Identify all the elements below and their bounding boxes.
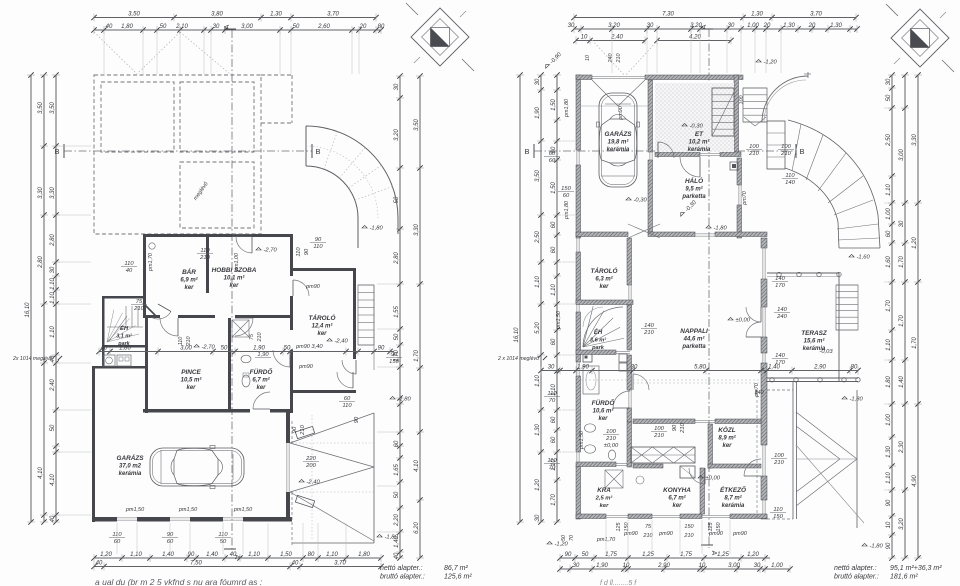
door HÁLÓ xyxy=(695,233,715,235)
PINCE|FÜRDŐ divider xyxy=(228,318,231,409)
section line A-A plan1 xyxy=(231,30,233,552)
svg-text:-1,80: -1,80 xyxy=(850,397,864,403)
garage right wall upper seg xyxy=(286,409,290,443)
door FÜRDŐ xyxy=(628,390,630,408)
french door leaf A xyxy=(746,307,761,322)
canopy arc over entry xyxy=(762,76,808,122)
svg-text:1,25: 1,25 xyxy=(717,552,729,558)
construction extension lines left plan2 xyxy=(562,140,575,142)
svg-text:1,10: 1,10 xyxy=(326,552,338,558)
svg-text:240: 240 xyxy=(776,314,787,320)
svg-text:50: 50 xyxy=(221,346,228,352)
dimension chain plan1 top overall xyxy=(91,12,378,22)
svg-text:-1,80: -1,80 xyxy=(398,397,412,403)
north compass symbol xyxy=(886,4,954,72)
wardrobe HÁLÓ xyxy=(730,162,738,170)
svg-text:1,10: 1,10 xyxy=(50,278,56,290)
svg-text:50: 50 xyxy=(582,552,589,558)
garage bottom wall seg3 xyxy=(190,517,223,522)
dimension chain plan2 bottom overall xyxy=(557,563,792,573)
right wall seg2 xyxy=(290,296,293,330)
svg-text:pm90: pm90 xyxy=(305,284,321,290)
svg-text:B: B xyxy=(524,147,529,156)
svg-text:10: 10 xyxy=(623,563,630,569)
svg-text:ker: ker xyxy=(186,385,196,391)
exterior stair right of TÁROLÓ xyxy=(358,285,374,345)
entry bottom wall xyxy=(94,366,145,369)
svg-text:60: 60 xyxy=(551,246,557,253)
svg-text:ker: ker xyxy=(317,331,327,337)
ramp bar 2 xyxy=(295,495,314,507)
svg-text:3,70: 3,70 xyxy=(327,12,339,18)
svg-text:ÉH: ÉH xyxy=(594,328,603,336)
svg-text:100: 100 xyxy=(749,144,759,150)
svg-text:pm90: pm90 xyxy=(732,531,748,537)
garage|ET divider xyxy=(648,80,653,152)
svg-text:15,6 m²: 15,6 m² xyxy=(804,338,826,345)
svg-text:parketta: parketta xyxy=(681,344,706,350)
svg-text:40: 40 xyxy=(230,552,237,558)
svg-text:125: 125 xyxy=(708,522,714,532)
svg-text:10,2 m²: 10,2 m² xyxy=(689,139,711,146)
svg-text:2,80: 2,80 xyxy=(38,256,44,269)
dimension chain plan2 left overall xyxy=(514,72,524,524)
FÜRDŐ right wall seg2 xyxy=(627,408,632,422)
svg-text:30: 30 xyxy=(899,220,905,227)
svg-text:12,4 m²: 12,4 m² xyxy=(312,323,334,330)
svg-text:pm1,00: pm1,00 xyxy=(234,253,240,272)
TÁROLÓ top wall xyxy=(576,232,628,237)
door arc corridor xyxy=(633,374,649,390)
svg-text:-0,03: -0,03 xyxy=(819,349,833,355)
top wall xyxy=(143,234,292,237)
svg-text:f d ll........5 f: f d ll........5 f xyxy=(600,580,637,586)
kitchen counter with X cells xyxy=(631,447,695,463)
ramp dashed connection xyxy=(767,389,793,391)
svg-text:3,20: 3,20 xyxy=(394,129,400,141)
svg-text:TERASZ: TERASZ xyxy=(801,330,828,337)
svg-text:NAPPALI: NAPPALI xyxy=(680,328,708,335)
ET stipple floor xyxy=(655,83,734,152)
svg-text:110: 110 xyxy=(218,532,228,538)
ET stair diagonal xyxy=(712,92,734,136)
svg-text:-2,40: -2,40 xyxy=(307,480,321,486)
svg-text:pm1,50: pm1,50 xyxy=(178,507,198,513)
svg-text:8,7 m²: 8,7 m² xyxy=(724,495,742,502)
svg-text:2x 1014 meglévő: 2x 1014 meglévő xyxy=(12,356,53,362)
dimension chain plan2 interior horizontal xyxy=(538,365,860,375)
svg-text:30: 30 xyxy=(535,78,541,85)
roof valley dotted lines xyxy=(94,32,137,74)
curved stair treads xyxy=(792,124,801,171)
svg-text:1,10: 1,10 xyxy=(535,276,541,288)
svg-text:1,50: 1,50 xyxy=(551,182,557,194)
svg-text:1,70: 1,70 xyxy=(899,315,905,327)
dimension chain plan1 bottom overall xyxy=(91,561,383,571)
dimension chain plan2 top detail xyxy=(568,23,860,33)
ÉH|NAPPALI divider xyxy=(627,305,632,350)
car (top view) xyxy=(597,93,640,187)
dimension chain plan2 right mid xyxy=(899,72,909,560)
svg-text:90: 90 xyxy=(565,552,572,558)
terrace top railing xyxy=(767,272,839,274)
svg-text:3,50: 3,50 xyxy=(414,119,420,131)
svg-text:5,80: 5,80 xyxy=(694,365,706,371)
garage door opening xyxy=(286,443,288,492)
svg-text:210: 210 xyxy=(748,151,759,157)
car (top view) xyxy=(150,446,244,489)
left wall seg2 xyxy=(576,165,581,238)
svg-text:-1,80: -1,80 xyxy=(385,535,399,541)
door HOBBI top xyxy=(236,237,252,253)
svg-text:3,00: 3,00 xyxy=(728,563,740,569)
svg-text:2,40: 2,40 xyxy=(50,379,56,392)
window bottom a xyxy=(606,514,628,516)
svg-text:200: 200 xyxy=(305,463,316,469)
svg-text:90: 90 xyxy=(354,416,360,423)
svg-text:nettó alapter.:: nettó alapter.: xyxy=(380,565,423,572)
ÉH top wall xyxy=(102,296,146,299)
svg-text:2,20: 2,20 xyxy=(394,514,400,527)
right wall seg1 xyxy=(290,234,293,276)
svg-text:pm1,70: pm1,70 xyxy=(148,253,154,272)
dimension chain plan2 bottom detail xyxy=(557,552,770,562)
window 110/150 xyxy=(762,500,764,515)
section marker B right plan1 xyxy=(311,144,313,158)
svg-text:-1,80: -1,80 xyxy=(370,226,384,232)
svg-text:10: 10 xyxy=(699,563,706,569)
window KÖZL xyxy=(762,445,764,476)
svg-text:10,5 m²: 10,5 m² xyxy=(181,377,203,384)
window HÁLÓ xyxy=(738,185,740,205)
svg-text:B: B xyxy=(315,147,320,156)
svg-text:pm1,50: pm1,50 xyxy=(125,507,145,513)
svg-text:90: 90 xyxy=(886,542,892,549)
stair V arrow xyxy=(744,117,755,126)
svg-text:6,3 m²: 6,3 m² xyxy=(595,276,613,283)
WC ellipse xyxy=(242,375,250,387)
svg-text:50: 50 xyxy=(50,424,56,431)
svg-text:ker: ker xyxy=(672,503,682,509)
TÁROLÓ bottom wall xyxy=(292,390,356,393)
FÜRDŐ bottom wall xyxy=(576,462,616,467)
svg-text:1,10: 1,10 xyxy=(50,292,56,304)
svg-text:60: 60 xyxy=(549,151,556,157)
svg-text:1,10: 1,10 xyxy=(248,552,260,558)
dimension chain plan1 left mid xyxy=(38,72,48,524)
dimension chain plan2 left detail xyxy=(551,72,561,524)
level -1,60 xyxy=(849,254,870,260)
svg-text:1,30: 1,30 xyxy=(830,23,842,29)
svg-text:30: 30 xyxy=(728,23,735,29)
section line A-A plan2 xyxy=(708,29,710,548)
svg-text:40: 40 xyxy=(50,515,56,522)
svg-text:10: 10 xyxy=(886,521,892,528)
door FÜRDŐ xyxy=(273,350,290,367)
window bottom b xyxy=(652,514,680,516)
garage left wall xyxy=(92,366,95,522)
svg-text:pm1,50: pm1,50 xyxy=(233,507,253,513)
KONYHA|ÉTKEZŐ divider xyxy=(700,468,705,514)
svg-text:210: 210 xyxy=(605,436,616,442)
svg-text:1,30: 1,30 xyxy=(783,23,795,29)
svg-text:pm90: pm90 xyxy=(298,364,314,370)
svg-text:2,80: 2,80 xyxy=(50,234,56,247)
svg-text:7,30: 7,30 xyxy=(662,12,674,18)
construction extension lines top plan1 xyxy=(103,32,105,74)
door TÁROLÓ xyxy=(628,285,630,300)
dimension chain plan1 left overall xyxy=(25,72,35,524)
svg-text:40: 40 xyxy=(292,561,299,567)
svg-text:GARÁZS: GARÁZS xyxy=(605,129,633,138)
svg-text:140: 140 xyxy=(775,353,785,359)
svg-text:110: 110 xyxy=(112,532,122,538)
washer boxes FÜRDŐ xyxy=(619,354,627,362)
canopy corner stub xyxy=(807,72,809,78)
ÉH left wall xyxy=(102,296,105,368)
svg-text:kerámia: kerámia xyxy=(119,471,142,477)
svg-text:110: 110 xyxy=(313,244,323,250)
top wall seg2 + ET top wall xyxy=(645,75,743,80)
svg-text:37,0 m2: 37,0 m2 xyxy=(119,464,142,470)
svg-text:90: 90 xyxy=(672,424,678,431)
svg-text:150: 150 xyxy=(624,523,630,532)
svg-text:B: B xyxy=(54,147,59,156)
svg-text:60: 60 xyxy=(886,230,892,237)
svg-text:220: 220 xyxy=(305,456,316,462)
svg-text:210: 210 xyxy=(257,333,263,343)
bottom wall seg2 xyxy=(628,514,652,519)
svg-text:30: 30 xyxy=(573,563,580,569)
svg-text:ker: ker xyxy=(722,443,732,449)
svg-text:80: 80 xyxy=(308,552,315,558)
svg-text:1,00: 1,00 xyxy=(747,23,759,29)
roof valley dotted plan2 xyxy=(592,40,625,76)
svg-text:±0,00: ±0,00 xyxy=(706,476,721,482)
svg-text:10,1 m²: 10,1 m² xyxy=(224,275,246,282)
svg-text:90: 90 xyxy=(188,552,195,558)
svg-text:110: 110 xyxy=(296,247,302,257)
garage right wall lower seg xyxy=(286,492,290,521)
terrace bottom railing xyxy=(767,377,858,379)
svg-text:210: 210 xyxy=(300,424,306,435)
svg-text:181,6 m²: 181,6 m² xyxy=(890,574,918,581)
KÖZL left wall xyxy=(708,424,713,468)
stair walk line xyxy=(109,316,127,341)
construction extension lines top plan2 xyxy=(611,31,613,73)
svg-text:50: 50 xyxy=(293,24,300,30)
svg-text:2,90: 2,90 xyxy=(813,365,826,371)
KÖZL bottom wall xyxy=(708,464,761,468)
svg-text:3,40: 3,40 xyxy=(311,344,323,350)
svg-text:3,70: 3,70 xyxy=(334,561,346,567)
top wall seg1 xyxy=(576,75,592,80)
svg-text:20: 20 xyxy=(808,23,816,29)
ÉH top wall xyxy=(576,300,633,305)
svg-text:1,80: 1,80 xyxy=(886,376,892,388)
exterior stair treads right xyxy=(836,285,858,330)
svg-text:210: 210 xyxy=(133,306,144,312)
svg-text:50: 50 xyxy=(394,333,400,340)
svg-text:1,70: 1,70 xyxy=(899,256,905,268)
right wall corner xyxy=(761,515,767,519)
FÜRDŐ right wall seg1 xyxy=(627,355,632,390)
BÁR|HOBBI divider xyxy=(206,237,209,293)
svg-text:30: 30 xyxy=(886,78,892,85)
svg-text:3,00: 3,00 xyxy=(180,346,192,352)
svg-text:1,90: 1,90 xyxy=(253,346,265,352)
door TÁROLÓ xyxy=(337,372,353,388)
svg-text:150: 150 xyxy=(684,524,694,530)
svg-text:60: 60 xyxy=(549,158,556,164)
svg-text:8,9 m²: 8,9 m² xyxy=(718,435,736,442)
svg-text:110: 110 xyxy=(124,261,134,267)
svg-text:nettó alapter.:: nettó alapter.: xyxy=(834,565,877,572)
svg-text:1,10: 1,10 xyxy=(551,284,557,296)
door arc FÜRDŐ xyxy=(613,391,630,408)
svg-text:16,10: 16,10 xyxy=(514,327,520,343)
door ÉH-BÁR xyxy=(152,312,171,319)
svg-text:140: 140 xyxy=(785,180,795,186)
dashed inner square 3 xyxy=(180,162,254,228)
winder stair straight treads xyxy=(125,306,127,327)
svg-text:1,50: 1,50 xyxy=(280,552,292,558)
svg-text:B: B xyxy=(799,147,804,156)
garage|HÁLÓ divider xyxy=(648,160,653,232)
svg-text:-2,70: -2,70 xyxy=(202,345,216,351)
svg-text:pm1,50: pm1,50 xyxy=(556,311,562,330)
basin 1 xyxy=(585,424,596,432)
svg-text:125,6 m²: 125,6 m² xyxy=(444,574,472,581)
svg-text:ET: ET xyxy=(695,131,704,138)
svg-text:kerámia: kerámia xyxy=(722,503,745,509)
corridor bottom wall xyxy=(633,464,663,468)
ramp radial dotted lines xyxy=(324,132,338,170)
svg-text:60: 60 xyxy=(167,539,174,545)
svg-text:HÁLÓ: HÁLÓ xyxy=(685,176,703,185)
svg-text:1,30: 1,30 xyxy=(886,446,892,458)
svg-text:BÁR: BÁR xyxy=(182,267,196,276)
box near note xyxy=(583,354,592,362)
svg-text:1,70: 1,70 xyxy=(414,350,420,362)
svg-text:GARÁZS: GARÁZS xyxy=(117,453,145,462)
svg-text:±0,00: ±0,00 xyxy=(604,443,619,449)
ET stair treads xyxy=(712,88,734,136)
door BÁR xyxy=(160,318,178,336)
right wall seg1 xyxy=(761,238,767,248)
svg-text:140: 140 xyxy=(644,323,654,329)
svg-text:1,00: 1,00 xyxy=(771,563,783,569)
svg-text:80: 80 xyxy=(378,24,385,30)
dimension chain plan2 top overall xyxy=(571,12,858,22)
entry fixtures (washer boxes) xyxy=(103,355,115,366)
svg-text:2 x 1014 meglévő: 2 x 1014 meglévő xyxy=(497,356,539,362)
left wall BÁR lower xyxy=(143,290,146,318)
driveway ramp boundary xyxy=(292,542,374,544)
door landing xyxy=(342,360,356,374)
svg-text:44,6 m²: 44,6 m² xyxy=(683,336,706,343)
svg-text:20: 20 xyxy=(763,23,771,29)
shower KRA xyxy=(605,470,623,488)
HÁLÓ bottom wall seg2 xyxy=(715,232,767,237)
svg-text:1,70: 1,70 xyxy=(551,494,557,506)
dashed inner square 1 xyxy=(101,82,174,152)
svg-text:30: 30 xyxy=(535,514,541,521)
svg-text:210: 210 xyxy=(643,330,654,336)
window opening top xyxy=(232,233,252,235)
svg-text:210: 210 xyxy=(199,255,210,261)
svg-text:3,50: 3,50 xyxy=(50,102,56,114)
ÉH bottom wall xyxy=(102,345,146,348)
level -1,20 bottom left xyxy=(547,541,568,547)
curved stair inner edge xyxy=(785,168,839,248)
construction extension lines left plan1 xyxy=(60,145,91,147)
svg-text:95,1 m²+36,3 m²: 95,1 m²+36,3 m² xyxy=(890,565,942,572)
small window xyxy=(762,353,764,363)
left wall seg1 xyxy=(576,75,581,150)
svg-text:110: 110 xyxy=(200,248,210,254)
svg-text:10: 10 xyxy=(585,55,591,61)
svg-text:110: 110 xyxy=(342,403,352,409)
svg-text:70: 70 xyxy=(549,465,556,471)
svg-text:140: 140 xyxy=(775,276,785,282)
svg-text:210: 210 xyxy=(773,460,784,466)
svg-text:1,20: 1,20 xyxy=(912,237,918,249)
level label -1,80 lower xyxy=(377,534,398,540)
svg-text:40: 40 xyxy=(101,346,108,352)
svg-text:2,90: 2,90 xyxy=(657,563,670,569)
svg-text:pm90: pm90 xyxy=(658,531,674,537)
svg-text:a ual du (br m 2 5 vkfnd s nu: a ual du (br m 2 5 vkfnd s nu ara fóumrd… xyxy=(95,577,263,586)
construction extension lines bottom plan1 xyxy=(116,523,118,554)
svg-text:90: 90 xyxy=(304,248,310,255)
svg-text:1,65: 1,65 xyxy=(394,464,400,476)
svg-text:7,50: 7,50 xyxy=(190,561,202,567)
svg-text:pm1,50: pm1,50 xyxy=(579,431,585,450)
north compass symbol xyxy=(406,3,474,71)
svg-text:50: 50 xyxy=(394,491,400,498)
svg-text:bruttó alapter.:: bruttó alapter.: xyxy=(834,574,879,581)
FÜRDŐ bottom wall xyxy=(270,409,292,413)
svg-text:pm1,80: pm1,80 xyxy=(564,201,570,220)
svg-text:4,10: 4,10 xyxy=(38,467,44,479)
curved stair outer edge xyxy=(788,120,880,248)
railing posts xyxy=(777,272,781,276)
svg-text:20: 20 xyxy=(359,24,367,30)
door PINCE xyxy=(253,392,270,409)
door HOBBI xyxy=(235,318,253,336)
svg-text:110: 110 xyxy=(178,337,184,346)
WC plan2 xyxy=(608,450,615,460)
svg-text:pm70: pm70 xyxy=(742,191,748,206)
HOBBI bottom wall seg3 xyxy=(235,315,292,318)
svg-text:170: 170 xyxy=(775,283,785,289)
svg-text:ker: ker xyxy=(256,385,266,391)
left wall seg4 xyxy=(576,312,581,362)
window pm1,50 b xyxy=(170,517,190,519)
svg-text:-2,40: -2,40 xyxy=(335,339,349,345)
svg-text:90: 90 xyxy=(292,426,298,433)
svg-text:140: 140 xyxy=(777,307,787,313)
window left d xyxy=(576,362,578,376)
svg-text:40: 40 xyxy=(106,24,113,30)
svg-text:140: 140 xyxy=(754,390,764,396)
svg-text:210: 210 xyxy=(186,337,192,347)
svg-text:3,00: 3,00 xyxy=(241,24,253,30)
dimension chain plan2 sub b xyxy=(654,35,733,45)
dimension chain plan2 left mid xyxy=(535,72,545,524)
door arc ET-garage xyxy=(658,142,674,158)
